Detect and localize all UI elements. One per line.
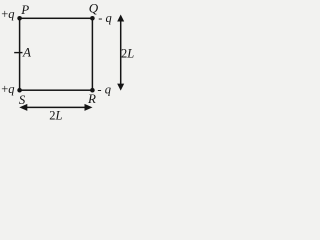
svg-text:+q: +q bbox=[1, 7, 14, 21]
svg-text:2L: 2L bbox=[49, 109, 62, 123]
svg-text:- q: - q bbox=[98, 11, 112, 25]
svg-text:+q: +q bbox=[1, 82, 14, 96]
svg-text:A: A bbox=[22, 44, 31, 59]
svg-text:2L: 2L bbox=[121, 46, 134, 60]
svg-text:R: R bbox=[87, 91, 96, 106]
svg-text:P: P bbox=[20, 2, 29, 17]
svg-text:- q: - q bbox=[97, 83, 111, 97]
svg-text:S: S bbox=[19, 92, 26, 107]
